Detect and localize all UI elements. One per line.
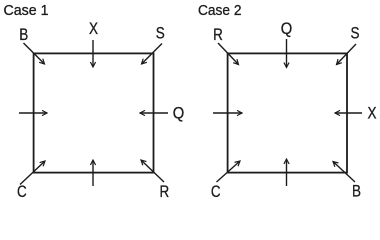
arrow bottom-middle upward into square (Case 1) xyxy=(92,160,94,186)
svg-text:R: R xyxy=(213,26,223,44)
svg-text:Q: Q xyxy=(173,104,185,122)
svg-text:B: B xyxy=(352,183,361,200)
svg-text:Case 1: Case 1 xyxy=(4,3,49,19)
arrow bottom-middle upward into square (Case 2) xyxy=(286,159,288,186)
square Case 2 xyxy=(228,53,347,172)
arrow left-middle rightward into square (Case 2) xyxy=(213,112,242,114)
svg-text:C: C xyxy=(211,183,221,200)
arrow from B into square xyxy=(24,43,45,64)
arrow left-middle rightward into square (Case 1) xyxy=(19,112,47,114)
arrow from R into square xyxy=(218,43,239,65)
arrow from B into square xyxy=(333,162,355,183)
arrow from S into square xyxy=(142,44,163,65)
svg-text:C: C xyxy=(17,183,27,200)
arrow from R into square xyxy=(141,160,164,182)
arrow from C into square xyxy=(20,161,45,185)
arrow from S into square xyxy=(337,44,357,65)
arrow Q downward into square xyxy=(286,39,288,68)
svg-text:R: R xyxy=(159,183,169,200)
svg-text:S: S xyxy=(351,25,360,43)
svg-text:X: X xyxy=(368,105,377,123)
svg-text:S: S xyxy=(156,25,165,43)
arrow from C into square xyxy=(217,161,241,182)
arrow X downward into square xyxy=(92,40,94,67)
svg-text:X: X xyxy=(89,20,98,38)
square Case 1 xyxy=(34,53,154,172)
arrow Q leftward into square xyxy=(140,112,168,114)
svg-text:B: B xyxy=(19,26,28,44)
arrow X leftward into square xyxy=(335,112,362,114)
svg-text:Q: Q xyxy=(281,20,293,38)
svg-text:Case 2: Case 2 xyxy=(198,3,242,19)
